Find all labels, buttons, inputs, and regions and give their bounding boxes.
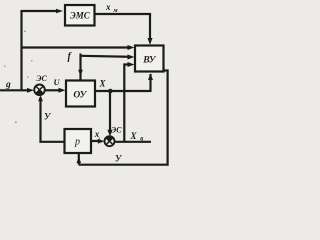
wire VU output to bottom line to R: [79, 71, 168, 165]
summing junction J1 (ЭС): [34, 85, 45, 96]
block R: [65, 129, 92, 153]
block EMS: [65, 5, 95, 26]
wire U from J1 to OU: [45, 89, 60, 91]
wire X down to J2: [109, 91, 111, 132]
svg-text:g: g: [5, 80, 11, 90]
wire Xv branch up into VU: [124, 65, 130, 142]
wire x from R to J2: [91, 140, 99, 142]
wire R left output to J1 bottom: [41, 97, 64, 142]
svg-text:U: U: [54, 77, 61, 87]
svg-text:ЭМС: ЭМС: [70, 11, 91, 21]
svg-text:X: X: [99, 79, 107, 89]
svg-text:ВУ: ВУ: [142, 56, 157, 66]
wire R bottom vertical: [78, 153, 80, 165]
svg-text:ОУ: ОУ: [73, 91, 87, 101]
block OU: [66, 81, 95, 107]
svg-text:в: в: [140, 135, 143, 142]
arrow U into OU: [59, 88, 66, 93]
wire f branch to VU: [81, 56, 131, 57]
svg-text:ЭС: ЭС: [111, 126, 122, 135]
wire g input: [0, 89, 29, 91]
arrow X up into VU bottom: [148, 74, 153, 81]
wire g branch vertical: [20, 10, 22, 90]
wire to EMS input: [22, 10, 58, 12]
arrow up into R bottom: [77, 157, 82, 163]
summing junction J2 (ЭС): [105, 136, 115, 146]
wire g branch to VU: [22, 46, 131, 48]
wire EMS output horizontal: [95, 13, 152, 15]
svg-text:X: X: [130, 131, 138, 141]
wire f vertical into OU: [79, 54, 81, 81]
arrow U up into J1 bottom: [38, 95, 43, 101]
paper specks: [4, 31, 32, 124]
arrow f into VU: [128, 55, 135, 60]
wire Xv output: [115, 141, 151, 143]
block VU: [135, 46, 164, 72]
node dot on X line: [108, 89, 113, 94]
arrow g into VU: [128, 45, 135, 50]
arrow x_m into VU top: [148, 38, 153, 45]
wire X from OU: [95, 90, 151, 92]
arrow into EMS: [56, 9, 63, 14]
arrow Xv into VU: [128, 62, 135, 67]
svg-text:м: м: [112, 7, 118, 14]
wire X up into VU bottom: [149, 74, 151, 92]
arrow g into J1: [27, 88, 34, 93]
svg-text:ЭС: ЭС: [36, 74, 47, 83]
svg-text:x: x: [105, 2, 111, 12]
arrow f into OU: [78, 70, 83, 76]
arrow X down into J2: [107, 130, 112, 137]
wire x_m vertical into VU top: [149, 14, 151, 41]
svg-text:р: р: [74, 137, 80, 148]
arrow x into J2: [98, 139, 105, 144]
